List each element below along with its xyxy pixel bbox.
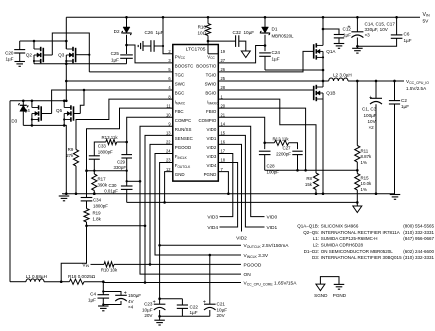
svg-text:R9: R9 (68, 147, 74, 152)
svg-text:(310) 332-3331: (310) 332-3331 (403, 255, 434, 260)
svg-text:150µF: 150µF (128, 293, 141, 298)
svg-text:C28: C28 (267, 163, 276, 168)
capacitor C22 1uF (160, 298, 183, 300)
svg-text:PGOOD: PGOOD (175, 145, 191, 150)
svg-text:1µF: 1µF (401, 104, 409, 109)
svg-text:15: 15 (221, 131, 226, 136)
svg-text:VID1: VID1 (207, 136, 217, 141)
svg-text:C33: C33 (98, 144, 107, 149)
svg-text:C34: C34 (93, 197, 102, 202)
svg-text:R8: R8 (306, 176, 312, 181)
svg-text:R11: R11 (361, 149, 369, 154)
svg-text:C24: C24 (272, 50, 281, 55)
ground PGND right hatch at C2 (390, 194, 401, 196)
resistor R17 390k (92, 174, 97, 191)
svg-text:1.5V/2.5A: 1.5V/2.5A (406, 86, 427, 91)
svg-text:C21: C21 (217, 302, 226, 307)
capacitor C29 330pF (121, 154, 132, 156)
wire pin 8 IMAXC to R9 (76, 99, 173, 149)
svg-text:VID4: VID4 (207, 225, 218, 231)
wire pin 2 PVCC from VIN rail (162, 16, 165, 19)
svg-text:R10 10k: R10 10k (101, 268, 118, 273)
svg-text:20V: 20V (144, 313, 153, 318)
svg-text:BGIO: BGIO (205, 91, 217, 96)
svg-text:17: 17 (221, 149, 226, 154)
capacitor C6 1uF (395, 16, 398, 19)
svg-text:C20: C20 (5, 51, 14, 56)
resistor R11 8.87k divider top (356, 81, 358, 146)
capacitor C1 C3 100uF x2 IO output bank (375, 81, 377, 99)
svg-text:D2: D2 (114, 29, 120, 34)
svg-text:10V: 10V (368, 119, 377, 124)
svg-text:SGND: SGND (314, 293, 328, 298)
svg-text:10.0k: 10.0k (361, 181, 373, 186)
wire pin 28 BGIO (218, 89, 313, 91)
svg-text:FBC: FBC (175, 109, 184, 114)
svg-text:VID3: VID3 (207, 154, 217, 159)
wire cap bottom rail (160, 315, 210, 317)
wire pin 9 RUN/SS to ON (140, 126, 241, 274)
svg-text:VID2: VID2 (236, 235, 247, 241)
svg-text:VID0: VID0 (267, 215, 278, 221)
svg-text:1800pF: 1800pF (93, 203, 108, 208)
resistor R16 10ohm VCC feed (207, 16, 210, 19)
svg-text:(310) 332-3331: (310) 332-3331 (403, 230, 434, 235)
svg-text:+: + (347, 24, 350, 30)
wire Q4/Q5 source ground rail (23, 125, 66, 193)
svg-text:(602) 244-6600: (602) 244-6600 (403, 249, 434, 254)
svg-text:18: 18 (221, 158, 226, 163)
svg-text:L1 0.68µH: L1 0.68µH (26, 274, 47, 279)
wire SW to L1 feed (left bypass) (9, 101, 11, 282)
svg-text:Q1A–Q1B:: Q1A–Q1B: (297, 224, 319, 229)
resistor R15 10.0k divider bottom (355, 174, 360, 191)
svg-text:C29: C29 (117, 159, 126, 164)
svg-text:VIN: VIN (82, 262, 89, 268)
svg-text:×3: ×3 (365, 32, 371, 37)
wire R19 node to SENSEC column (87, 225, 146, 227)
resistor R10 10k PGOOD pullup (91, 263, 105, 265)
capacitor C20 1uF VIN bypass (19, 41, 21, 50)
wire SWC node rail (Q2/Q3 sources) (34, 63, 127, 65)
capacitor C23 10uF VOUTCLK (159, 245, 161, 304)
capacitor C28 100pF (264, 143, 266, 149)
ground SGND at C32 (open triangle) (241, 51, 250, 58)
svg-text:1µF: 1µF (156, 30, 164, 35)
svg-text:13: 13 (166, 131, 171, 136)
capacitor C24 1uF boost cap IO (259, 52, 271, 54)
svg-text:VINCLK 3.3V: VINCLK 3.3V (244, 253, 269, 259)
op-amp U1 LTC1705 controller IC body (173, 45, 219, 182)
svg-text:IMAXIO: IMAXIO (207, 100, 219, 106)
wire pin 4 BGC to Q4/Q5 gates (52, 90, 173, 113)
svg-text:VID4: VID4 (207, 163, 217, 168)
svg-text:10µF: 10µF (244, 30, 255, 35)
svg-text:330pF: 330pF (114, 165, 127, 170)
svg-text:100µF: 100µF (364, 113, 377, 118)
svg-text:22: 22 (166, 140, 171, 145)
wire pin 21 COMPIO to comp network (218, 117, 264, 143)
svg-text:TGC: TGC (175, 73, 184, 78)
svg-text:SILICONIX Si4966: SILICONIX Si4966 (321, 224, 359, 229)
svg-text:C2: C2 (401, 98, 407, 103)
svg-text:C14, C15, C17: C14, C15, C17 (365, 21, 396, 26)
wire VCC_CPU_CORE output row (103, 282, 241, 284)
wire PGND rail (62, 193, 395, 195)
svg-text:IMAXC: IMAXC (175, 100, 186, 106)
svg-text:Q3: Q3 (58, 53, 65, 58)
svg-text:L2:: L2: (313, 243, 319, 248)
svg-text:VID0: VID0 (207, 127, 217, 132)
capacitor 150uF x4 core bank (103, 292, 121, 296)
wire VCC_CPU_IO output rail (348, 80, 404, 82)
svg-text:1µF: 1µF (343, 33, 351, 38)
capacitor C2 1uF (394, 81, 396, 101)
svg-text:Q1B: Q1B (326, 91, 335, 96)
svg-text:VID3: VID3 (207, 215, 218, 221)
svg-text:1%: 1% (361, 160, 367, 165)
wire R19 node down to L1/R18 junction (61, 226, 86, 282)
wire Q4/Q5 drain rail (SW node) (10, 100, 66, 102)
svg-text:Q2–Q5:: Q2–Q5: (303, 230, 319, 235)
svg-text:16: 16 (221, 140, 226, 145)
svg-text:SWC: SWC (175, 82, 185, 87)
svg-text:1800pF: 1800pF (98, 150, 113, 155)
svg-text:R13 11k: R13 11k (101, 135, 118, 140)
svg-text:R19: R19 (93, 210, 102, 215)
diode D2 MBR0520L (boost, CORE) (125, 16, 128, 19)
svg-text:GND: GND (175, 172, 185, 177)
wire pin 19 VCC (208, 53, 218, 55)
wire pin 22 PGOOD (150, 144, 241, 264)
svg-text:C6: C6 (404, 32, 410, 37)
ground legend SGND symbol (320, 277, 339, 285)
ground SGND under R15 (open triangle) (356, 202, 358, 206)
svg-text:1µF: 1µF (5, 57, 13, 62)
svg-text:26: 26 (221, 67, 226, 72)
svg-text:VCC_CPU_IO: VCC_CPU_IO (406, 79, 429, 85)
ground at C12 (334, 43, 345, 45)
wire pin 13 SENSEC to core sense (145, 135, 173, 282)
ground at C23 (154, 319, 165, 321)
svg-text:Q1A: Q1A (326, 49, 336, 54)
diode D1 MBR0520L (boost, IO) (264, 16, 267, 19)
wire pin 24 FINCLK to VINCLK (155, 153, 241, 255)
svg-text:5V: 5V (423, 18, 430, 24)
svg-text:R17: R17 (98, 176, 107, 181)
svg-text:SUMIDA CDRH6D28: SUMIDA CDRH6D28 (321, 243, 364, 248)
svg-text:+: + (153, 300, 156, 306)
svg-text:D3: D3 (11, 119, 17, 124)
svg-text:×4: ×4 (128, 305, 134, 310)
svg-text:Q2: Q2 (26, 53, 33, 58)
wire pin 3 BOOSTC (127, 45, 173, 63)
svg-text:SWIO: SWIO (205, 82, 217, 87)
wire VIN 5V top rail (66, 16, 420, 18)
capacitor C30 0.01uF soft-start (126, 171, 128, 186)
wire pin 10 COMPC (127, 117, 173, 142)
svg-text:D1–D2:: D1–D2: (304, 249, 319, 254)
svg-text:28: 28 (221, 85, 226, 90)
resistor R19 1.8k (84, 209, 89, 223)
svg-text:L1:: L1: (313, 236, 319, 241)
svg-text:(847) 956-0667: (847) 956-0667 (403, 236, 434, 241)
svg-text:BOOSTC: BOOSTC (175, 63, 194, 68)
svg-text:14: 14 (221, 121, 226, 126)
svg-text:24: 24 (166, 149, 171, 154)
svg-text:PGND: PGND (333, 293, 347, 298)
svg-text:D1: D1 (272, 27, 278, 32)
svg-text:27: 27 (221, 58, 226, 63)
wire pin 25 SWIO rail (218, 80, 328, 82)
svg-text:10µF: 10µF (217, 307, 228, 312)
svg-text:FOUTCLK: FOUTCLK (175, 163, 191, 169)
capacitor C25 1uF boost cap (120, 54, 133, 56)
wire pin 6 SWC (66, 80, 173, 82)
wire FB IO divider line (265, 169, 358, 171)
svg-text:0.01µF: 0.01µF (104, 189, 118, 194)
ground PGND left hatch (63, 193, 65, 196)
svg-text:C1, C3: C1, C3 (362, 107, 377, 112)
capacitor C12 1uF (323, 29, 339, 35)
wire VID4 pin 18 (218, 163, 237, 227)
svg-text:19: 19 (221, 49, 226, 54)
svg-text:330µF, 10V: 330µF, 10V (365, 27, 389, 32)
svg-text:C25: C25 (111, 51, 120, 56)
svg-text:R15: R15 (361, 176, 370, 181)
svg-text:SENSEC: SENSEC (175, 136, 193, 141)
wire SGND rail (127, 201, 358, 203)
wire VIN drop to Q2/Q3 drain rail (65, 17, 67, 49)
svg-text:RUN/SS: RUN/SS (175, 127, 192, 132)
wire pin 23 FOUTCLK to VOUTCLK (160, 163, 173, 246)
wire pin 27 BOOSTIO (218, 46, 265, 63)
svg-text:D3:: D3: (312, 255, 319, 260)
svg-text:ON SEMICONDUCTOR MBR0520L: ON SEMICONDUCTOR MBR0520L (321, 249, 393, 254)
wire pin 1 IMAXIO to R8 (218, 99, 316, 170)
svg-text:4V: 4V (128, 299, 135, 304)
capacitor C34 1800pF (81, 197, 93, 199)
svg-text:BGC: BGC (175, 91, 185, 96)
wire Q2/Q3 drain rail (VIN) (20, 40, 67, 42)
svg-text:LTC1705: LTC1705 (186, 46, 206, 52)
wire VID1 pin 15 (218, 135, 264, 227)
svg-text:FBIO: FBIO (206, 109, 217, 114)
wire Q2/Q3 gates to TGC (43, 54, 52, 56)
wire C24 bottom to SWIO node (265, 69, 323, 71)
svg-text:20: 20 (221, 103, 226, 108)
capacitor C21 10uF VINCLK (209, 255, 211, 305)
svg-text:C26: C26 (145, 30, 154, 35)
svg-text:Q5: Q5 (56, 108, 63, 113)
svg-text:1µF: 1µF (88, 298, 96, 303)
wire COMPC node line (87, 170, 127, 172)
wire VID2 pin 16 (218, 144, 241, 231)
svg-text:390k: 390k (98, 182, 108, 187)
svg-text:COMPC: COMPC (175, 118, 191, 123)
svg-text:R18 0.0025Ω: R18 0.0025Ω (68, 274, 96, 279)
svg-text:C27: C27 (282, 146, 291, 151)
svg-text:PVCC: PVCC (175, 54, 186, 60)
wire pin 12 GND to SGND rail (165, 172, 173, 203)
svg-text:INTERNATIONAL RECTIFIER 30BQ01: INTERNATIONAL RECTIFIER 30BQ015 (321, 255, 402, 260)
svg-text:VID1: VID1 (267, 225, 278, 231)
svg-text:C23: C23 (144, 302, 153, 307)
svg-text:(800) 554-5565: (800) 554-5565 (403, 224, 434, 229)
svg-text:PGOOD: PGOOD (244, 262, 262, 268)
wire VID3 pin 17 (218, 153, 233, 216)
svg-text:15k: 15k (305, 182, 313, 187)
svg-text:L2 3.0µH: L2 3.0µH (333, 73, 352, 78)
svg-text:1µF: 1µF (111, 58, 119, 63)
svg-text:C32: C32 (233, 30, 242, 35)
svg-text:VID2: VID2 (207, 145, 217, 150)
svg-text:COMPIO: COMPIO (198, 118, 216, 123)
svg-text:ON: ON (244, 272, 252, 278)
svg-text:1%: 1% (361, 187, 367, 192)
svg-text:21: 21 (221, 112, 226, 117)
svg-text:FINCLK: FINCLK (175, 154, 188, 160)
svg-text:2200pF: 2200pF (276, 151, 291, 156)
svg-text:VOUTCLK 2.5V/150mA: VOUTCLK 2.5V/150mA (244, 243, 290, 249)
wire pin 5 TGC (89, 71, 173, 73)
svg-text:12: 12 (166, 167, 171, 172)
svg-text:C22: C22 (190, 305, 199, 310)
svg-text:25: 25 (221, 76, 226, 81)
ground legend PGND symbol (334, 283, 345, 285)
wire pin 11 FBC staircase (87, 108, 173, 197)
svg-text:INTERNATIONAL RECTIFIER IR7811: INTERNATIONAL RECTIFIER IR7811A (321, 230, 400, 235)
svg-text:SUMIDA CEP125-R68MC-H: SUMIDA CEP125-R68MC-H (321, 236, 378, 241)
svg-text:1µF: 1µF (190, 310, 198, 315)
svg-text:C30: C30 (108, 183, 117, 188)
svg-text:TGIO: TGIO (206, 73, 217, 78)
svg-text:PGND: PGND (204, 172, 217, 177)
svg-text:+: + (203, 300, 206, 306)
capacitor C4 1uF core output (102, 282, 104, 295)
svg-text:10µF: 10µF (142, 307, 153, 312)
wire pin 7 PGND (218, 172, 228, 194)
wire VID0 pin 14 (218, 126, 264, 216)
ground at C14 bank (352, 47, 363, 49)
svg-text:11: 11 (166, 103, 171, 108)
svg-text:10: 10 (166, 112, 171, 117)
capacitor C14 C15 C17 330uF x3 input bank (356, 16, 359, 19)
svg-text:1µF: 1µF (272, 57, 280, 62)
svg-text:MBR0520L: MBR0520L (272, 34, 295, 39)
svg-text:C4: C4 (90, 291, 96, 296)
svg-text:8.87k: 8.87k (361, 154, 373, 159)
ground at C4 (98, 305, 109, 307)
svg-text:23: 23 (166, 158, 171, 163)
svg-text:1.8k: 1.8k (93, 216, 102, 221)
wire SWC column (65, 64, 67, 101)
svg-text:R16: R16 (198, 25, 207, 30)
ground at C20 (14, 61, 25, 63)
svg-text:VCC_CPU_CORE 1.65V/15A: VCC_CPU_CORE 1.65V/15A (244, 280, 298, 286)
svg-text:20V: 20V (217, 313, 226, 318)
svg-text:×2: ×2 (369, 125, 375, 130)
svg-text:10Ω: 10Ω (197, 31, 206, 36)
svg-text:VCC: VCC (207, 54, 215, 60)
wire pin 26 TGIO to Q1A gate (218, 51, 313, 72)
svg-text:BOOSTIO: BOOSTIO (196, 63, 217, 68)
wire pin 20 FBIO to divider (218, 108, 305, 170)
svg-text:1µF: 1µF (404, 38, 412, 43)
